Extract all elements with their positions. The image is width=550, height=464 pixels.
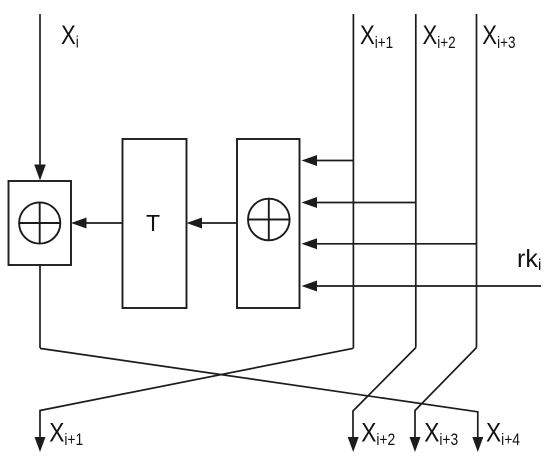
box T transform U2: [123, 139, 187, 308]
svg-text:Xi+2: Xi+2: [423, 21, 456, 52]
wire Xi input: [39, 14, 41, 168]
svg-text:Xi+1: Xi+1: [49, 417, 83, 449]
arrowhead Xi into XOR U1: [34, 165, 46, 181]
arrowhead Xi+2 out: [348, 437, 359, 452]
wire U1 output down: [39, 265, 41, 348]
arrowhead Xi+4 out: [472, 437, 483, 452]
wire vertical Xi+1: [352, 14, 354, 348]
wire vertical Xi+3: [476, 14, 478, 348]
wire diagonal U1 to Xi+4 output: [40, 348, 478, 438]
arrowhead into U1: [71, 218, 87, 229]
wire Xi+3 tap into U3: [316, 243, 477, 245]
arrowhead Xi+3 out: [410, 437, 421, 452]
XOR U1 box (left): [9, 181, 72, 265]
wire Xi+2 tap into U3: [316, 202, 416, 204]
XOR U3 circle-plus: [248, 199, 290, 241]
wire U3 output to T: [201, 222, 237, 224]
svg-text:Xi+4: Xi+4: [486, 417, 520, 449]
svg-text:Xi+1: Xi+1: [360, 21, 393, 52]
svg-text:Xi+3: Xi+3: [482, 21, 515, 52]
arrowhead tap3: [302, 238, 318, 249]
svg-text:T: T: [146, 210, 160, 236]
arrowhead into T: [187, 218, 203, 229]
arrowhead Xi+1 out: [35, 437, 46, 452]
arrowhead tap1: [302, 155, 318, 166]
svg-text:Xi: Xi: [61, 21, 79, 52]
wire Xi+1 tap into U3: [316, 160, 353, 162]
wire diagonal Xi+3 to output: [415, 348, 477, 438]
XOR U3 box (middle-right): [237, 139, 300, 308]
svg-text:Xi+2: Xi+2: [361, 417, 395, 449]
svg-text:rki: rki: [517, 245, 541, 274]
wire diagonal Xi+2 to output: [353, 348, 416, 438]
XOR U1 circle-plus: [19, 202, 60, 243]
wire diagonal Xi+1 to output: [40, 348, 353, 439]
svg-text:Xi+3: Xi+3: [424, 417, 458, 449]
wire vertical Xi+2: [415, 14, 417, 348]
arrowhead rki: [302, 281, 318, 292]
wire rki input into U3: [316, 285, 541, 287]
wire T output to U1: [86, 222, 123, 224]
arrowhead tap2: [302, 197, 318, 208]
